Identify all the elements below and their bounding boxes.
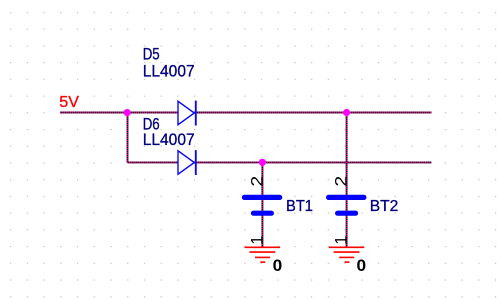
ground (BT2, net 0) <box>329 247 365 262</box>
svg-text:5V: 5V <box>59 94 79 111</box>
diode D5 <box>178 101 196 126</box>
battery BT1 <box>244 197 279 213</box>
wire V2 (BT1 branch vertical) <box>261 162 263 247</box>
svg-text:D5: D5 <box>143 44 160 63</box>
battery BT2 <box>329 197 364 213</box>
ground (BT1, net 0) <box>245 247 281 262</box>
diode D6 <box>178 150 196 175</box>
svg-text:LL4007: LL4007 <box>143 130 195 149</box>
svg-text:1: 1 <box>248 236 266 245</box>
node B junction <box>343 109 350 116</box>
node C junction <box>259 159 266 166</box>
node A junction <box>124 109 131 116</box>
svg-text:0: 0 <box>273 257 283 275</box>
svg-text:2: 2 <box>248 176 266 187</box>
svg-text:BT2: BT2 <box>370 198 399 215</box>
wire V3 (BT2 branch vertical) <box>346 113 348 248</box>
svg-text:1: 1 <box>333 236 351 245</box>
wire V1 (vertical from junction A down to W2) <box>127 113 129 163</box>
svg-text:LL4007: LL4007 <box>143 62 195 81</box>
svg-text:0: 0 <box>357 257 367 275</box>
wire W1 (5V horizontal top rail) <box>60 112 432 114</box>
svg-text:2: 2 <box>333 176 351 187</box>
svg-text:BT1: BT1 <box>286 198 313 215</box>
wire W2 (lower horizontal rail) <box>128 161 432 163</box>
